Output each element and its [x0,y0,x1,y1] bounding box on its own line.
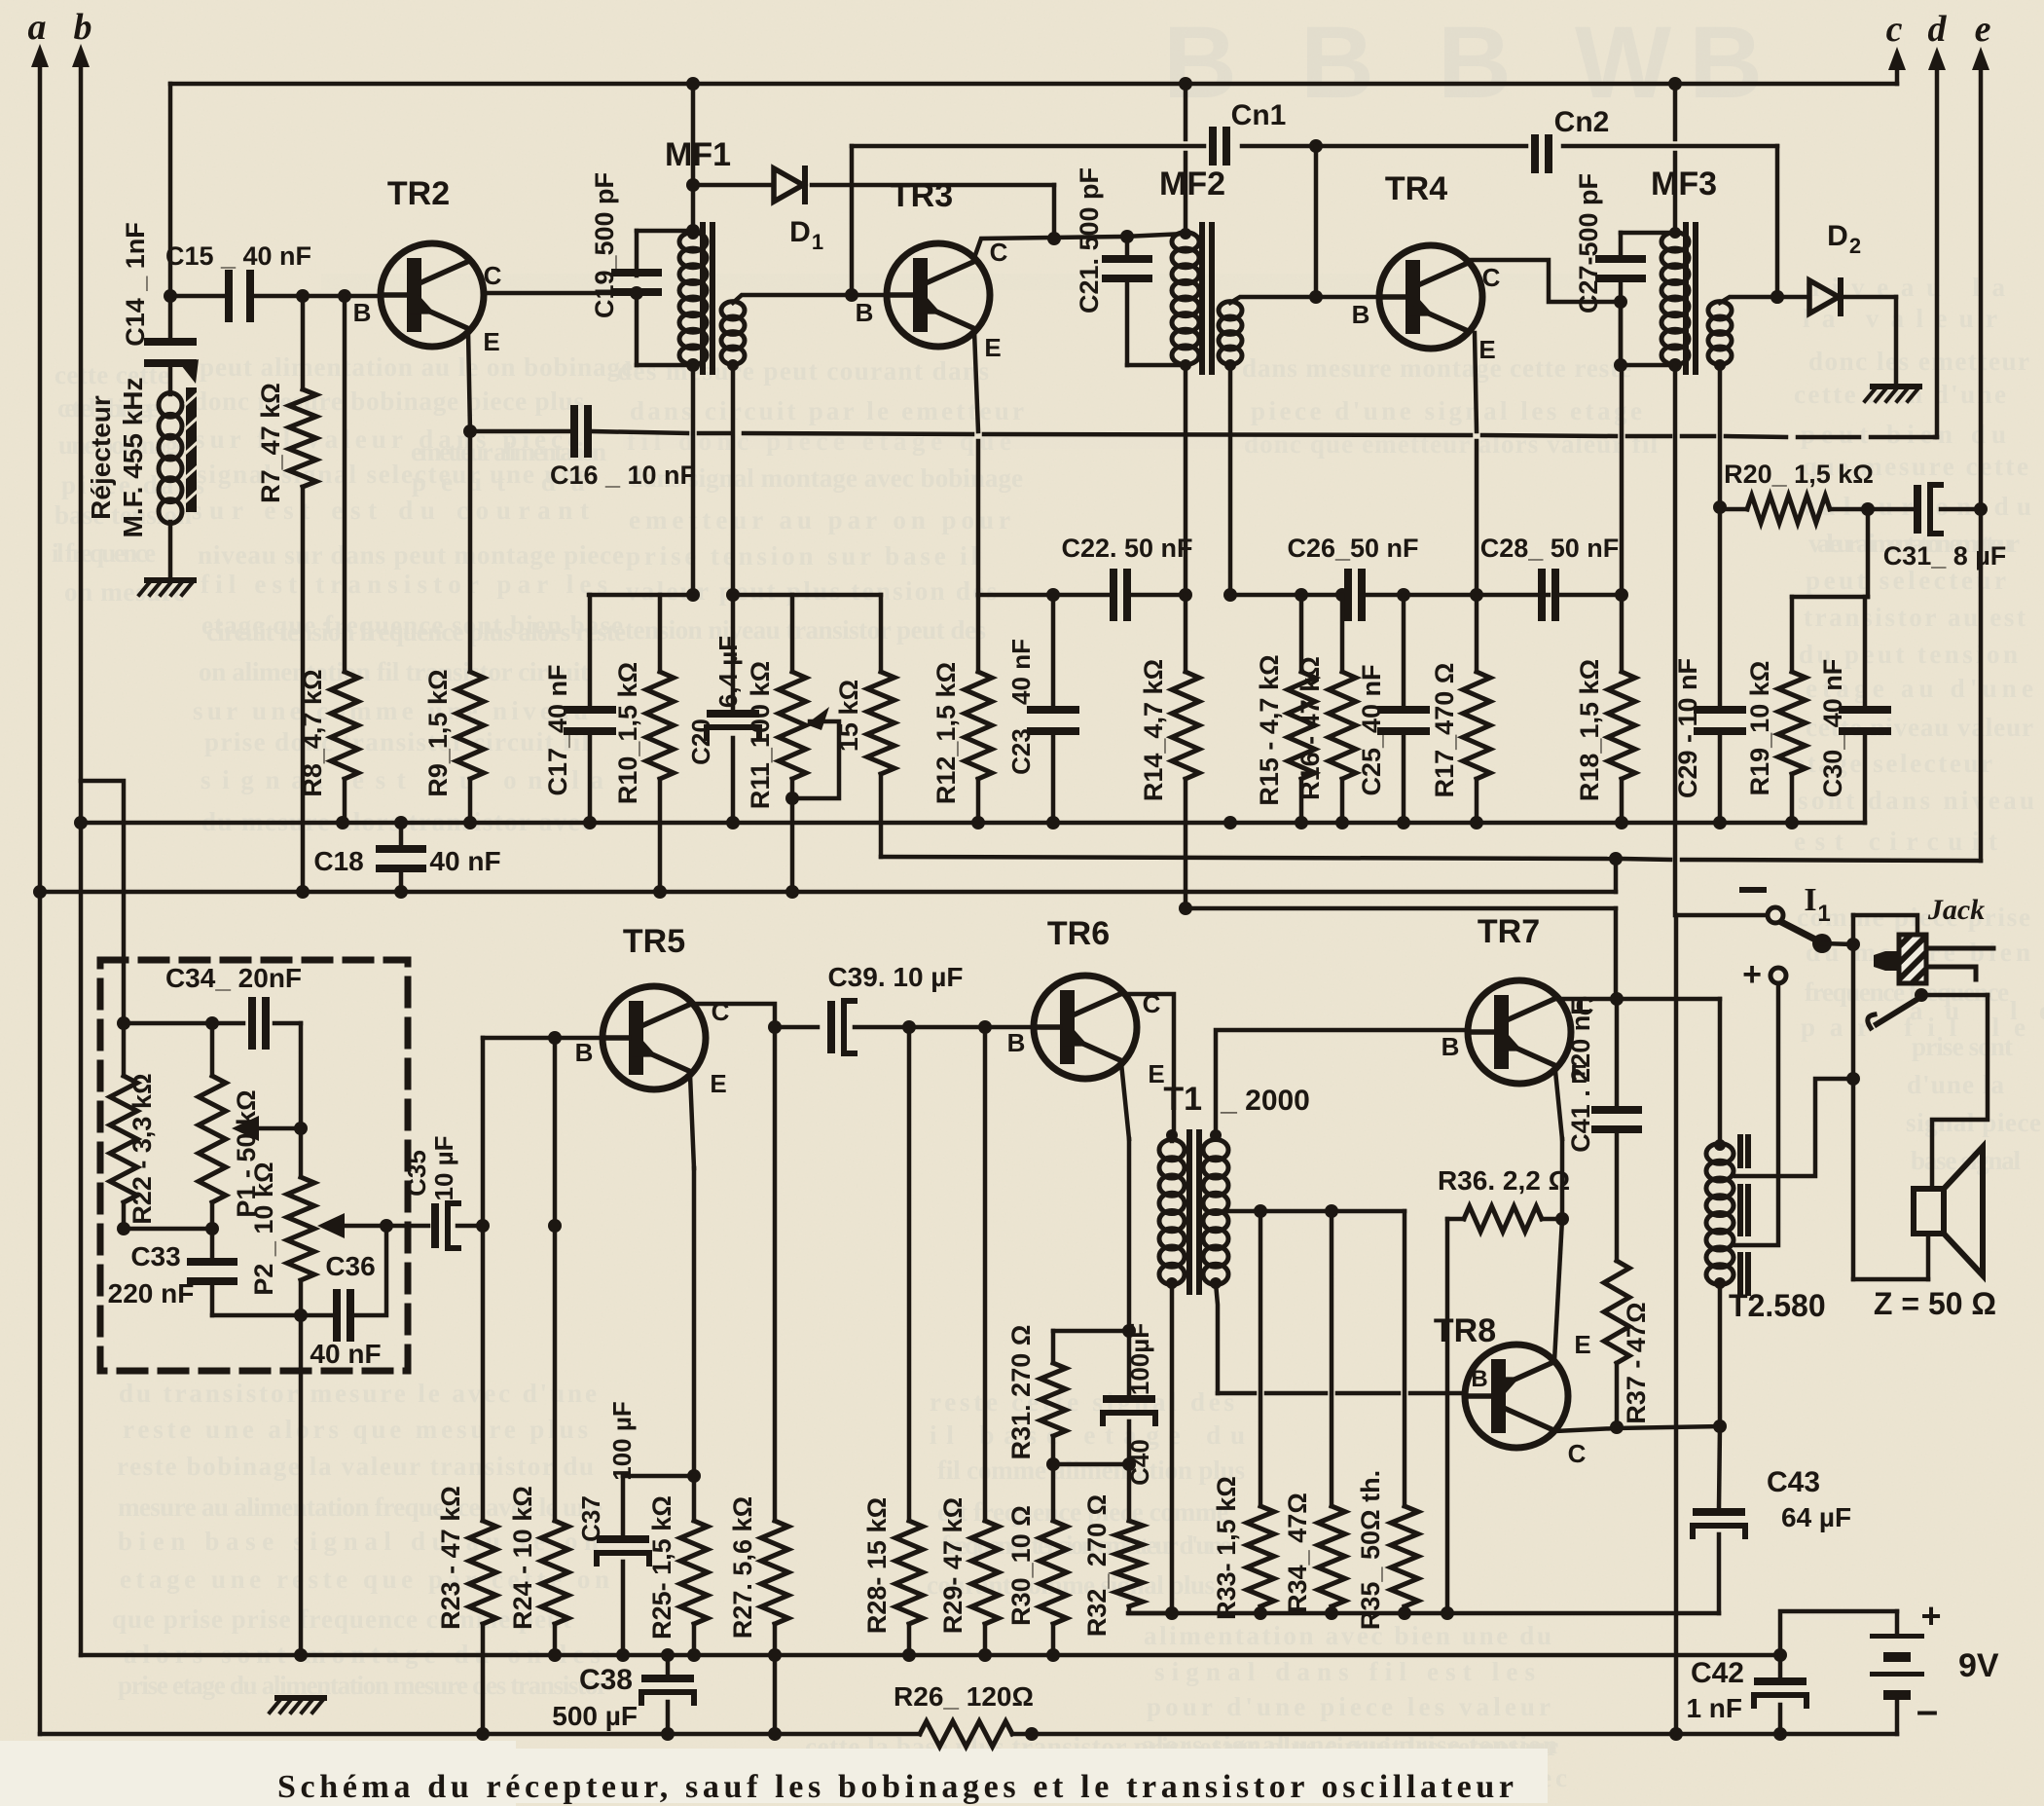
svg-text:64 µF: 64 µF [1781,1502,1851,1532]
transistor TR2 [381,243,484,347]
svg-text:R7_47 kΩ: R7_47 kΩ [256,383,285,503]
transformer MF2 secondary [1219,302,1242,319]
svg-text:Z = 50 Ω: Z = 50 Ω [1874,1286,1996,1321]
transformer MF2 primary [1172,233,1199,252]
switch I1 lever [1783,923,1821,942]
wire D2 cathode to ground [1844,295,1896,300]
svg-text:MF1: MF1 [665,136,731,173]
wire C37 node line [623,1474,694,1479]
capacitor C20 [731,595,736,709]
wire MF3 secondary top to D2 [1720,297,1808,303]
resistor R10 [658,595,663,672]
capacitor C37 [621,1476,626,1534]
svg-text:TR8: TR8 [1434,1312,1496,1349]
jack sleeve leads [1926,946,1993,951]
resistor R35 [1403,1211,1407,1506]
svg-text:signal dans fil est les: signal dans fil est les [1154,1657,1535,1686]
wire T1 secondary tap [1224,1209,1405,1214]
svg-text:B: B [856,298,874,327]
svg-text:R24 - 10 kΩ: R24 - 10 kΩ [508,1486,537,1630]
svg-text:R16 - 47 kΩ: R16 - 47 kΩ [1296,656,1325,800]
svg-text:prise donc transistor circuit: prise donc transistor circuit fil [204,727,589,756]
resistor R32 [1127,1464,1132,1521]
capacitor C28 [1538,569,1546,621]
svg-text:Réjecteur: Réjecteur [86,395,116,520]
transformer T1 primary [1159,1140,1185,1161]
svg-text:C38: C38 [579,1664,633,1696]
transformer MF1 secondary [721,302,745,319]
resistor R14 [1184,595,1188,672]
transformer MF2 core [1199,222,1205,375]
svg-text:R15 - 4,7 kΩ: R15 - 4,7 kΩ [1255,654,1284,805]
wire R18 top feed [1620,365,1624,595]
svg-text:1: 1 [1817,901,1830,927]
inductor Rejecteur MF coil [159,393,182,418]
wire TR7 emitter drop [1555,1071,1562,1139]
wire b jog into box [81,781,124,1023]
svg-text:C35: C35 [402,1150,431,1197]
wire R31 C40 top node [1053,1329,1129,1334]
svg-text:donc les emetteur: donc les emetteur [1808,347,2029,376]
transformer MF3 core [1683,222,1689,375]
svg-text:C34_ 20nF: C34_ 20nF [165,963,302,993]
resistor R22 [110,1076,137,1202]
transistor TR7 [1468,980,1571,1084]
wire TR5 collector line [691,1004,818,1027]
wire speaker return [1851,944,1856,1279]
transformer T2 core [1737,1134,1751,1296]
svg-text:e: e [1975,9,1991,50]
svg-text:base signal: base signal [1911,1146,2021,1175]
svg-text:R26_ 120Ω: R26_ 120Ω [894,1681,1034,1712]
svg-text:+: + [1742,956,1762,993]
svg-text:reste bobinage la valeur trans: reste bobinage la valeur transistor du [117,1452,594,1481]
wire TR3 collector line [975,237,1124,255]
svg-text:on alimentation fil transistor: on alimentation fil transistor circuit [199,657,589,686]
svg-text:Cn1: Cn1 [1231,99,1287,131]
node c arrow [1895,58,1900,84]
wire L880 supply line [881,857,1611,859]
wire top supply rail [170,82,1897,87]
wire C19 bracket [635,289,639,365]
wire Cn rail drop to TR4 base [1314,146,1319,297]
svg-text:+: + [1920,1596,1941,1636]
svg-text:TR4: TR4 [1385,170,1447,207]
svg-text:TR2: TR2 [387,175,450,212]
svg-text:C: C [1568,1439,1587,1468]
svg-text:b: b [74,7,92,48]
wiper P2 [343,1224,386,1229]
svg-text:R35_ 50Ω th.: R35_ 50Ω th. [1356,1470,1385,1630]
svg-text:des mesure peut courant dans: des mesure peut courant dans [617,356,989,386]
resistor R24 [553,1038,558,1521]
wire MF2 secondary top to TR4 base [1230,297,1378,303]
svg-text:Schéma du récepteur, sauf les: Schéma du récepteur, sauf les bobinages … [277,1769,1514,1805]
resistor R25 [692,1476,697,1521]
wire line b (second vertical rail) [79,55,84,1655]
svg-text:T1: T1 [1163,1081,1202,1118]
svg-text:TR5: TR5 [623,923,685,960]
wire jack feed [1853,915,1917,936]
wire I1 minus drop [1674,915,1679,1734]
svg-text:R18_1,5 kΩ: R18_1,5 kΩ [1575,659,1604,801]
wire MF3 primary bottom drop [1673,365,1678,915]
resistor R36 [1447,1217,1464,1222]
potentiometer P1 [210,1023,215,1076]
capacitor Cn2 [1531,134,1539,173]
wire T1 secondary bottom to TR8 base [1216,1283,1218,1393]
svg-text:prise etage du alimentation me: prise etage du alimentation mesure des t… [118,1671,608,1700]
resistor R12 [965,672,992,779]
potentiometer R11 [790,595,795,672]
ground under rejecteur [147,577,194,583]
capacitor C39 [827,1001,835,1053]
transformer T1 secondary [1203,1140,1228,1161]
svg-text:Cn2: Cn2 [1554,106,1610,138]
svg-text:que prise prise frequence comm: que prise prise frequence comme peut [112,1604,571,1634]
wire MF3 primary feed [1673,84,1678,139]
transformer T1 core [1186,1129,1192,1295]
svg-text:40 nF: 40 nF [310,1339,381,1369]
wire box top node [124,1021,243,1026]
switch I1 minus terminal [1768,907,1783,923]
wire line e [1979,58,1984,861]
svg-text:C20: C20 [686,719,715,765]
transistor TR4 [1379,245,1482,349]
svg-text:sur est est du courant: sur est est du courant [192,496,589,525]
svg-text:C33: C33 [130,1241,180,1272]
wire TR4 emitter drop [1475,333,1477,431]
resistor R26 [920,1721,1012,1747]
wire TR5 emitter drop [690,1075,694,1168]
potentiometer P2 [299,1128,304,1177]
transformer MF3 primary [1661,233,1689,252]
wire node line MF2sec to R17 [1230,593,1342,598]
resistor R27 [773,1027,778,1521]
resistor R30 [1051,1464,1056,1521]
svg-text:R34_ 47Ω: R34_ 47Ω [1283,1493,1312,1613]
wire TR8 collector line [1554,1428,1617,1431]
svg-text:dans mesure montage cette rest: dans mesure montage cette reste [1242,353,1631,383]
wire line d (AGC column) [1935,58,1940,437]
transistor TR5 [602,986,706,1089]
svg-text:R31. 270 Ω: R31. 270 Ω [1006,1325,1036,1460]
transformer MF1 core [700,222,706,375]
wire bus1 positive [81,821,1865,826]
resistor R29 [983,1027,988,1521]
wire MF1 top node [637,229,693,234]
svg-text:TR6: TR6 [1047,915,1110,952]
resistor R28 [907,1027,912,1521]
svg-text:c: c [1886,9,1903,50]
switch I1 plus terminal [1770,968,1786,983]
transistor TR8 [1465,1345,1568,1448]
wire P2 drop to bus3 [299,1315,304,1655]
svg-text:C19_500 pF: C19_500 pF [590,172,619,318]
svg-text:R20_ 1,5 kΩ: R20_ 1,5 kΩ [1724,460,1874,489]
resistor R8 [343,296,347,672]
svg-text:prise sont: prise sont [1912,1032,2013,1061]
diode D2 [1809,280,1839,313]
svg-text:TR7: TR7 [1478,913,1540,950]
svg-text:E: E [1574,1330,1590,1359]
capacitor C34 [248,997,256,1050]
capacitor C27 [1619,233,1624,255]
wire TR2 base line [170,294,226,299]
capacitor C19 [635,231,639,276]
svg-text:B: B [1471,1366,1487,1392]
svg-text:C39. 10 µF: C39. 10 µF [827,962,963,992]
svg-text:TR3: TR3 [891,177,953,214]
wire AGC hook to d [1935,435,1937,440]
svg-text:6,4 µF: 6,4 µF [713,636,743,708]
dashed box volume control [100,960,408,1371]
wire TR2 collector to tank [483,291,637,296]
capacitor C14 [168,296,173,339]
capacitor C41 [1615,999,1620,1106]
transformer MF1 primary [679,233,707,252]
resistor R7 [301,296,306,389]
svg-text:B: B [1352,300,1370,329]
wire bus2 ground return [40,890,1616,895]
svg-text:B: B [353,298,372,327]
wire bus3 ground bus [81,1653,1780,1658]
svg-text:circuit tension frequence plus: circuit tension frequence plus alors res… [206,617,626,646]
svg-text:alimentation avec bien une du: alimentation avec bien une du [1144,1621,1551,1650]
svg-text:C43: C43 [1767,1466,1820,1498]
wire MF3 bracket drop to R18 [1619,302,1624,365]
svg-text:C: C [712,997,730,1026]
svg-text:C29 - 10 nF: C29 - 10 nF [1673,658,1702,798]
capacitor C31 [1914,485,1921,534]
wire MF3 top node [1621,231,1675,236]
svg-text:donc mesure bobinage piece plu: donc mesure bobinage piece plus [193,387,584,416]
wire TR6 emitter drop [1121,1063,1129,1139]
svg-text:C22. 50 nF: C22. 50 nF [1061,534,1192,563]
jack plug neck [1885,951,1899,971]
svg-text:signal piece: signal piece [1906,1108,2041,1137]
svg-text:R25- 1,5 kΩ: R25- 1,5 kΩ [647,1495,676,1640]
svg-text:C23: C23 [1006,728,1036,775]
resistor R16 [1340,595,1345,672]
svg-text:B: B [1007,1028,1026,1057]
svg-text:C41 . 220 nF: C41 . 220 nF [1566,999,1595,1153]
svg-text:tension niveau transistor peut: tension niveau transistor peut des [625,615,986,645]
svg-text:C: C [1482,263,1501,292]
wire TR3 emitter drop [974,331,978,431]
svg-text:1: 1 [812,230,823,254]
svg-text:C: C [484,261,502,290]
wire MF1 secondary bottom drop [731,365,736,595]
svg-text:D: D [789,216,811,248]
capacitor C25 [1402,595,1406,707]
wire R22 bottom node [124,1227,212,1232]
svg-text:10 µF: 10 µF [429,1135,458,1200]
svg-text:C21. 500 pF: C21. 500 pF [1075,167,1104,313]
wire T1 secondary top to TR7 base [1216,1030,1466,1135]
svg-text:M.F. 455 kHz: M.F. 455 kHz [118,378,148,538]
capacitor C33 [210,1229,215,1258]
svg-text:R19_10 kΩ: R19_10 kΩ [1745,661,1774,796]
resistor R31 [1051,1331,1056,1363]
wire TR6 collector to T1 [1122,994,1174,1135]
wire bus3 battery hook [1780,1611,1897,1655]
capacitor C15 [225,270,233,322]
wire node line TR3E to R14 [978,593,1110,598]
svg-text:niveau sur dans peut montage p: niveau sur dans peut montage piece [198,540,624,570]
capacitor C17 [588,595,593,707]
svg-text:C27-500 pF: C27-500 pF [1574,173,1603,313]
svg-text:C15 _ 40 nF: C15 _ 40 nF [165,241,311,271]
svg-text:40 nF: 40 nF [429,846,500,876]
svg-text:B: B [575,1038,594,1067]
resistor R18 [1608,672,1635,779]
svg-text:100 µF: 100 µF [607,1401,637,1480]
wire Cn rail drop to TR3 base [850,146,855,295]
svg-text:transistor au est: transistor au est [1804,603,2026,632]
wire C33 P2 bottom node [212,1313,301,1318]
svg-text:MF3: MF3 [1651,166,1717,203]
wire R36 left drop [1445,1219,1450,1613]
capacitor C22 [1110,569,1117,621]
resistor R37 [1604,1261,1629,1363]
svg-text:E: E [710,1069,726,1098]
wiper P1 [257,1023,301,1128]
wire T1 primary bottom drop [1170,1283,1175,1613]
svg-text:R28- 15 kΩ: R28- 15 kΩ [862,1497,892,1634]
svg-text:220 nF: 220 nF [108,1278,195,1308]
svg-text:R9_1,5 kΩ: R9_1,5 kΩ [423,669,453,796]
wire L1655 bias line [1128,1611,1719,1616]
diode D1 [774,168,803,202]
capacitor C21 [1125,237,1130,255]
resistor R20 [1720,507,1747,512]
svg-text:d: d [1928,9,1948,50]
wire node line C20-15k [733,593,881,598]
svg-text:sur une comme une niveau: sur une comme une niveau [193,696,588,725]
capacitor C43 [1719,1426,1720,1508]
svg-text:C14 _ 1nF: C14 _ 1nF [121,222,150,347]
wire L933 line [1186,906,1616,911]
svg-text:C42: C42 [1691,1657,1744,1689]
svg-text:C17_40 nF: C17_40 nF [543,664,572,795]
wire Cn rail [852,144,1204,149]
svg-text:C26_50 nF: C26_50 nF [1287,534,1418,563]
capacitor C30 [1863,597,1868,707]
ground D2 [1873,384,1919,389]
wire MF2 secondary bottom drop [1228,365,1233,595]
wire node line C17-R10 [589,593,693,598]
wire line a (left vertical rail) [38,55,43,1734]
wire MF1 primary bottom drop [691,365,696,595]
resistor R17 [1463,672,1490,779]
capacitor C18 [399,823,404,845]
svg-text:fil est transistor par les: fil est transistor par les [201,570,607,599]
svg-text:il frequence: il frequence [52,538,156,568]
svg-text:R30_10 Ω: R30_10 Ω [1006,1505,1036,1626]
svg-text:R14_4,7 kΩ: R14_4,7 kΩ [1139,659,1168,801]
wire T2 column to TR8C [1718,1283,1723,1426]
resistor R9 [468,431,473,672]
resistor R19 [1790,597,1795,672]
resistor 15k [879,595,884,672]
capacitor C42 [1778,1655,1783,1676]
svg-text:C28_ 50 nF: C28_ 50 nF [1480,534,1620,563]
transistor TR3 [887,243,990,347]
svg-text:D: D [1827,220,1848,252]
svg-text:C31_ 8 µF: C31_ 8 µF [1883,541,2007,571]
svg-text:R32_ 270 Ω: R32_ 270 Ω [1082,1494,1112,1637]
transformer T2 primary [1706,1144,1734,1164]
capacitor C38 [666,1655,671,1673]
transformer MF3 secondary [1708,302,1732,319]
wire TR8 emitter riser [1554,1219,1562,1361]
transistor TR6 [1034,976,1137,1079]
svg-text:R27. 5,6 kΩ: R27. 5,6 kΩ [728,1496,757,1639]
svg-text:R10_1,5 kΩ: R10_1,5 kΩ [613,662,642,804]
svg-text:R12_1,5 kΩ: R12_1,5 kΩ [931,662,961,804]
wire MF2 primary feed [1184,84,1188,139]
svg-text:MF2: MF2 [1159,166,1225,203]
ground box [277,1695,324,1701]
resistor R34 [1330,1211,1334,1506]
wire MF3 secondary bottom drop [1718,365,1723,507]
svg-text:E: E [984,333,1001,362]
wire TR7 collector line [1557,997,1720,1002]
svg-text:500 µF: 500 µF [552,1701,638,1731]
svg-text:C: C [990,238,1008,267]
capacitor C26 [1344,569,1352,621]
svg-text:R29- 47 kΩ: R29- 47 kΩ [938,1497,967,1634]
wire R23 riser to TR5 base [481,1038,486,1226]
svg-text:R11_100 kΩ: R11_100 kΩ [746,661,775,809]
diode D1 line [693,183,774,188]
battery 9V [1895,1611,1900,1634]
capacitor C16 [570,405,578,458]
svg-text:_ 2000: _ 2000 [1220,1085,1310,1117]
capacitor C40 [1127,1331,1132,1394]
wire R31 C40 bottom node [1053,1462,1129,1467]
wiper R11 [792,721,839,798]
speaker [1914,1189,1944,1234]
svg-text:peut alimentation au le on bob: peut alimentation au le on bobinage [200,352,633,382]
svg-text:du transistor mesure le avec d: du transistor mesure le avec d'une [119,1379,597,1408]
wire bottom negative bus [40,1732,920,1737]
capacitor Cn1 [1209,127,1217,166]
svg-text:a: a [28,7,47,48]
svg-text:E: E [1148,1059,1164,1088]
resistor R33 [1259,1211,1263,1506]
svg-text:R33- 1,5 kΩ: R33- 1,5 kΩ [1212,1476,1241,1620]
wire AGC feedback line [470,429,570,434]
svg-text:40 nF: 40 nF [1006,639,1036,705]
wire T2 tap lower [1735,983,1778,1245]
capacitor C23 [1051,595,1056,707]
svg-text:1 nF: 1 nF [1686,1693,1742,1723]
svg-text:9V: 9V [1958,1647,1999,1684]
svg-text:15 kΩ: 15 kΩ [834,680,863,752]
wire R19 C30 node [1866,509,1871,597]
svg-text:la valeur: la valeur [1803,304,1997,333]
wire speaker bottom [1853,1277,1928,1282]
svg-text:B: B [1442,1032,1460,1061]
wire Cn rail right end drop [1775,146,1780,297]
svg-text:prise tension sur base il: prise tension sur base il [626,541,978,571]
jack break contact [1868,1014,1875,1028]
svg-text:C25_40 nF: C25_40 nF [1357,664,1386,795]
svg-text:–: – [1916,1689,1938,1732]
wire MF1 primary feed [691,84,696,231]
